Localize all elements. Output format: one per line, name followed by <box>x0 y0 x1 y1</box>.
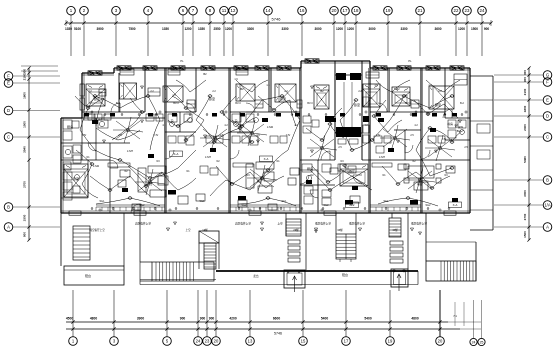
svg-text:低区电井上空: 低区电井上空 <box>349 222 365 226</box>
svg-text:1200: 1200 <box>336 27 343 31</box>
partition walls upper band <box>118 73 120 112</box>
svg-text:WL2: WL2 <box>242 204 248 207</box>
svg-text:19: 19 <box>388 339 393 344</box>
stair S1 left <box>73 226 90 260</box>
svg-text:3300: 3300 <box>247 27 254 31</box>
svg-text:YJV: YJV <box>442 138 447 141</box>
svg-text:3900: 3900 <box>137 317 145 321</box>
svg-text:阳台: 阳台 <box>342 272 348 277</box>
svg-text:3600: 3600 <box>434 27 441 31</box>
left strip inner wall <box>81 118 83 160</box>
bottom dimension line 2 <box>66 328 460 330</box>
stair S3 stacked flights <box>288 240 300 244</box>
stair S2 landing <box>199 231 219 243</box>
svg-text:1200: 1200 <box>458 27 465 31</box>
stair S5 right block <box>426 261 476 281</box>
small appliance rects scattered <box>88 114 95 120</box>
svg-text:阳台: 阳台 <box>85 273 91 278</box>
wall top main left <box>114 67 301 69</box>
svg-text:A: A <box>7 225 10 230</box>
svg-text:挑空客厅上空: 挑空客厅上空 <box>89 228 105 232</box>
svg-text:B-2: B-2 <box>457 129 462 133</box>
svg-text:餐厅: 餐厅 <box>349 168 355 173</box>
kitchen fixtures left strip <box>63 120 72 129</box>
svg-text:D: D <box>7 108 10 113</box>
svg-text:2400: 2400 <box>523 124 527 131</box>
wall top right <box>370 67 470 69</box>
svg-text:1200: 1200 <box>184 27 191 31</box>
svg-text:X-A: X-A <box>453 203 458 207</box>
svg-text:1500: 1500 <box>471 27 478 31</box>
svg-text:WL1: WL1 <box>282 200 288 203</box>
bottom grid bubbles <box>71 320 74 323</box>
svg-text:客厅: 客厅 <box>417 181 423 186</box>
svg-text:YJV: YJV <box>82 134 87 137</box>
svg-text:WL1: WL1 <box>200 200 206 203</box>
bath fixture cluster unit2 <box>168 136 176 143</box>
svg-text:上空: 上空 <box>277 222 283 226</box>
wall left main <box>60 118 62 213</box>
svg-text:C: C <box>546 135 549 140</box>
svg-text:17: 17 <box>343 8 348 13</box>
bath fixtures mid <box>168 114 177 122</box>
svg-text:卧室: 卧室 <box>280 96 286 101</box>
svg-text:1800: 1800 <box>523 105 527 112</box>
party wall 5 <box>420 68 422 213</box>
stair S2 steps <box>204 243 216 269</box>
svg-text:900: 900 <box>180 317 186 321</box>
right grid bubbles <box>543 71 552 80</box>
wall switches <box>91 111 93 113</box>
svg-text:AL1: AL1 <box>328 119 333 123</box>
svg-text:5746: 5746 <box>272 17 282 22</box>
left grid bubbles <box>4 72 13 81</box>
svg-text:B2: B2 <box>240 87 244 91</box>
svg-text:D: D <box>546 114 549 119</box>
wall top-left unit <box>82 72 114 74</box>
svg-text:B2: B2 <box>203 72 207 76</box>
left dimension line <box>28 68 30 240</box>
bed bedroom 5 <box>363 84 380 107</box>
svg-text:A: A <box>546 225 549 230</box>
svg-text:24: 24 <box>480 8 485 13</box>
party wall 2 <box>229 68 231 213</box>
svg-text:20: 20 <box>438 339 443 344</box>
wall left jog <box>61 117 82 119</box>
dining cluster right <box>408 166 434 178</box>
svg-text:5746: 5746 <box>274 332 282 336</box>
bed bedroom 2 <box>163 86 183 102</box>
svg-text:1/A: 1/A <box>544 203 550 208</box>
svg-text:PL: PL <box>180 59 184 63</box>
svg-text:B-2: B-2 <box>116 102 120 105</box>
svg-text:卧室: 卧室 <box>435 102 441 107</box>
svg-text:300: 300 <box>523 70 527 75</box>
entry canopy right-center <box>391 269 408 287</box>
svg-text:YJV: YJV <box>286 134 291 137</box>
svg-text:厨房: 厨房 <box>307 166 313 171</box>
svg-text:20: 20 <box>214 339 219 344</box>
svg-text:2700: 2700 <box>523 213 527 220</box>
svg-text:BV-3: BV-3 <box>307 102 313 105</box>
lower band side walls <box>60 213 62 266</box>
top dimension line <box>66 22 491 24</box>
stair S4 stacked flights <box>390 241 403 245</box>
walkway lines <box>216 270 418 272</box>
balcony edge line bottom <box>96 204 165 206</box>
bed mid-right <box>340 164 368 186</box>
svg-text:BV-3: BV-3 <box>235 102 241 105</box>
svg-text:WL2: WL2 <box>426 204 432 207</box>
bottom dimension line 1 <box>66 321 448 323</box>
svg-text:1500: 1500 <box>23 121 27 128</box>
svg-text:15: 15 <box>301 339 306 344</box>
top grid extension lines <box>70 26 72 56</box>
svg-text:23: 23 <box>205 339 210 344</box>
svg-text:3000: 3000 <box>314 27 321 31</box>
svg-text:24: 24 <box>196 339 201 344</box>
junction boxes under bedroom wall <box>84 113 89 117</box>
shaft side fixtures <box>303 116 311 123</box>
wall outlet dots rows <box>87 114 89 116</box>
top grid bubbles <box>67 6 76 15</box>
svg-text:B2: B2 <box>396 87 400 91</box>
svg-text:25: 25 <box>480 340 484 344</box>
sofa cluster living 1 <box>138 168 146 192</box>
svg-text:1800: 1800 <box>23 92 27 99</box>
extra living furniture <box>120 170 130 177</box>
svg-text:4800: 4800 <box>90 317 98 321</box>
right service strip walls <box>492 76 494 230</box>
svg-text:23: 23 <box>465 8 470 13</box>
svg-text:900: 900 <box>209 317 215 321</box>
svg-text:客厅: 客厅 <box>147 181 153 186</box>
svg-text:19: 19 <box>386 8 391 13</box>
svg-text:卧室: 卧室 <box>73 176 79 181</box>
balcony tick rows <box>95 207 97 211</box>
wall right main <box>469 68 471 213</box>
svg-text:3300: 3300 <box>400 27 407 31</box>
windows left wall <box>80 84 84 96</box>
sofa cluster living 2 <box>246 164 254 188</box>
svg-text:J-M7: J-M7 <box>205 155 212 159</box>
svg-text:YJV: YJV <box>376 134 381 137</box>
wall top center tower <box>301 60 370 62</box>
svg-text:AL2: AL2 <box>350 203 355 207</box>
tv cabinets <box>108 163 130 167</box>
svg-text:F: F <box>546 80 549 85</box>
svg-text:2#梯: 2#梯 <box>293 228 299 232</box>
kitchen counters right section <box>300 169 318 171</box>
svg-text:B2: B2 <box>320 89 324 93</box>
svg-text:上空: 上空 <box>185 228 191 232</box>
left extra leaders <box>21 65 58 67</box>
svg-text:WL2: WL2 <box>140 204 146 207</box>
diffuser triangles <box>103 140 106 143</box>
svg-text:7500: 7500 <box>128 27 135 31</box>
svg-text:18: 18 <box>354 8 359 13</box>
svg-text:低区电井上空: 低区电井上空 <box>315 222 331 226</box>
svg-text:7.1: 7.1 <box>453 314 457 318</box>
svg-text:900: 900 <box>23 232 27 237</box>
svg-text:B: B <box>546 178 549 183</box>
svg-text:高区电井上空: 高区电井上空 <box>235 222 251 226</box>
svg-text:4#梯: 4#梯 <box>392 228 398 232</box>
svg-text:厨房: 厨房 <box>67 124 73 129</box>
svg-text:17: 17 <box>344 339 349 344</box>
svg-text:2100: 2100 <box>523 88 527 95</box>
svg-text:1500: 1500 <box>523 231 527 238</box>
svg-text:J-M2: J-M2 <box>267 125 274 129</box>
svg-text:3000: 3000 <box>368 27 375 31</box>
svg-text:WL1: WL1 <box>100 200 106 203</box>
svg-text:卫: 卫 <box>234 119 237 123</box>
stair S3 steps <box>286 219 301 236</box>
svg-text:900: 900 <box>484 27 490 31</box>
bath fixture cluster unit3 <box>232 136 240 143</box>
svg-text:F: F <box>7 74 10 79</box>
svg-text:WL1: WL1 <box>384 200 390 203</box>
svg-text:J-M7: J-M7 <box>127 149 134 153</box>
svg-text:16: 16 <box>300 8 305 13</box>
balcony left <box>64 266 124 285</box>
svg-text:11: 11 <box>222 8 227 13</box>
center shaft <box>335 75 362 133</box>
svg-text:B: B <box>7 205 10 210</box>
svg-text:20: 20 <box>332 8 337 13</box>
windows bottom wall <box>69 211 81 215</box>
svg-text:1200: 1200 <box>225 27 232 31</box>
svg-text:900: 900 <box>523 77 527 82</box>
bed bedroom 4 <box>275 84 296 102</box>
bath band partitions <box>61 142 130 144</box>
party wall 1 <box>164 68 166 213</box>
wall bottom apartments <box>61 212 470 214</box>
wiring circuits <box>95 96 160 150</box>
svg-text:K-A: K-A <box>174 152 179 156</box>
door arcs <box>111 103 120 112</box>
svg-text:YJV: YJV <box>154 134 159 137</box>
svg-text:3#梯: 3#梯 <box>337 228 343 232</box>
svg-text:5400: 5400 <box>321 317 329 321</box>
bath cluster far right <box>448 120 456 128</box>
svg-text:卧室: 卧室 <box>94 96 100 101</box>
svg-text:5100: 5100 <box>74 27 81 31</box>
svg-text:1350: 1350 <box>162 27 169 31</box>
svg-text:X-A: X-A <box>264 157 269 161</box>
svg-text:卫: 卫 <box>170 119 173 123</box>
outdoor stair run bottom-left <box>152 262 214 281</box>
svg-text:2700: 2700 <box>23 181 27 188</box>
svg-text:C: C <box>7 135 10 140</box>
bed lower-left <box>64 164 88 197</box>
bed bedroom 6 <box>392 87 410 106</box>
svg-text:E: E <box>546 98 549 103</box>
svg-text:J-M7: J-M7 <box>379 155 386 159</box>
svg-text:4500: 4500 <box>66 317 74 321</box>
svg-text:书房: 书房 <box>447 121 453 126</box>
svg-text:21: 21 <box>418 8 423 13</box>
bottom right small bubbles <box>473 300 475 338</box>
svg-text:1500: 1500 <box>23 214 27 221</box>
svg-text:G: G <box>546 73 549 78</box>
bed bedroom 3 <box>236 84 255 101</box>
svg-text:卧室: 卧室 <box>354 102 360 107</box>
party wall 4 <box>369 68 371 213</box>
svg-text:E: E <box>7 81 10 86</box>
svg-text:1#梯: 1#梯 <box>202 228 208 232</box>
ceiling lamps <box>94 95 97 98</box>
bed bedroom 1b <box>120 83 137 99</box>
below-wall triangle symbols <box>166 228 169 231</box>
partition walls horizontal bedroom line <box>82 111 145 113</box>
svg-text:BV-3: BV-3 <box>405 102 411 105</box>
entry canopy center <box>284 270 305 288</box>
wall left upper <box>81 73 83 118</box>
svg-text:5460: 5460 <box>523 156 527 163</box>
bottom right extension lines <box>454 302 456 326</box>
svg-text:3900: 3900 <box>96 27 103 31</box>
svg-text:900: 900 <box>200 317 206 321</box>
bed tower-left <box>314 85 329 109</box>
windows on top walls <box>88 71 102 75</box>
svg-text:5400: 5400 <box>364 317 372 321</box>
stair pair center-right <box>336 234 356 259</box>
code labels boxed <box>170 151 183 157</box>
electrical panels <box>92 120 98 124</box>
svg-text:PL: PL <box>408 59 412 63</box>
svg-text:22: 22 <box>454 8 459 13</box>
svg-text:3300: 3300 <box>281 27 288 31</box>
svg-text:3540: 3540 <box>23 146 27 153</box>
svg-text:2550: 2550 <box>213 27 220 31</box>
bed bedroom 1 <box>86 84 105 106</box>
svg-text:300: 300 <box>23 69 27 74</box>
svg-text:卧室: 卧室 <box>209 96 215 101</box>
svg-text:走台: 走台 <box>253 274 259 278</box>
stair S4 steps <box>389 218 401 237</box>
svg-text:低区电井上空: 低区电井上空 <box>411 222 427 226</box>
svg-text:14: 14 <box>266 8 271 13</box>
svg-text:1350: 1350 <box>198 27 205 31</box>
junction spiders <box>116 121 128 130</box>
wardrobes <box>120 69 134 75</box>
svg-text:13: 13 <box>248 339 253 344</box>
bed bedroom 7 <box>429 86 454 109</box>
svg-text:BV-3: BV-3 <box>173 102 179 105</box>
svg-text:4800: 4800 <box>411 317 419 321</box>
svg-text:2100: 2100 <box>23 73 27 80</box>
svg-text:B-2: B-2 <box>460 102 464 105</box>
distribution boxes <box>168 190 176 195</box>
party wall 3 <box>299 68 301 213</box>
svg-text:6600: 6600 <box>273 317 281 321</box>
svg-text:YJV: YJV <box>220 134 225 137</box>
svg-text:客厅: 客厅 <box>257 178 263 183</box>
svg-text:24: 24 <box>472 340 476 344</box>
svg-text:12: 12 <box>231 8 236 13</box>
svg-text:WL2: WL2 <box>324 204 330 207</box>
right dimension line <box>528 68 530 240</box>
svg-text:4200: 4200 <box>229 317 237 321</box>
svg-text:J-M2: J-M2 <box>93 164 100 168</box>
svg-text:高区电井上空: 高区电井上空 <box>135 222 151 226</box>
svg-text:3000: 3000 <box>523 190 527 197</box>
svg-text:1200: 1200 <box>347 27 354 31</box>
